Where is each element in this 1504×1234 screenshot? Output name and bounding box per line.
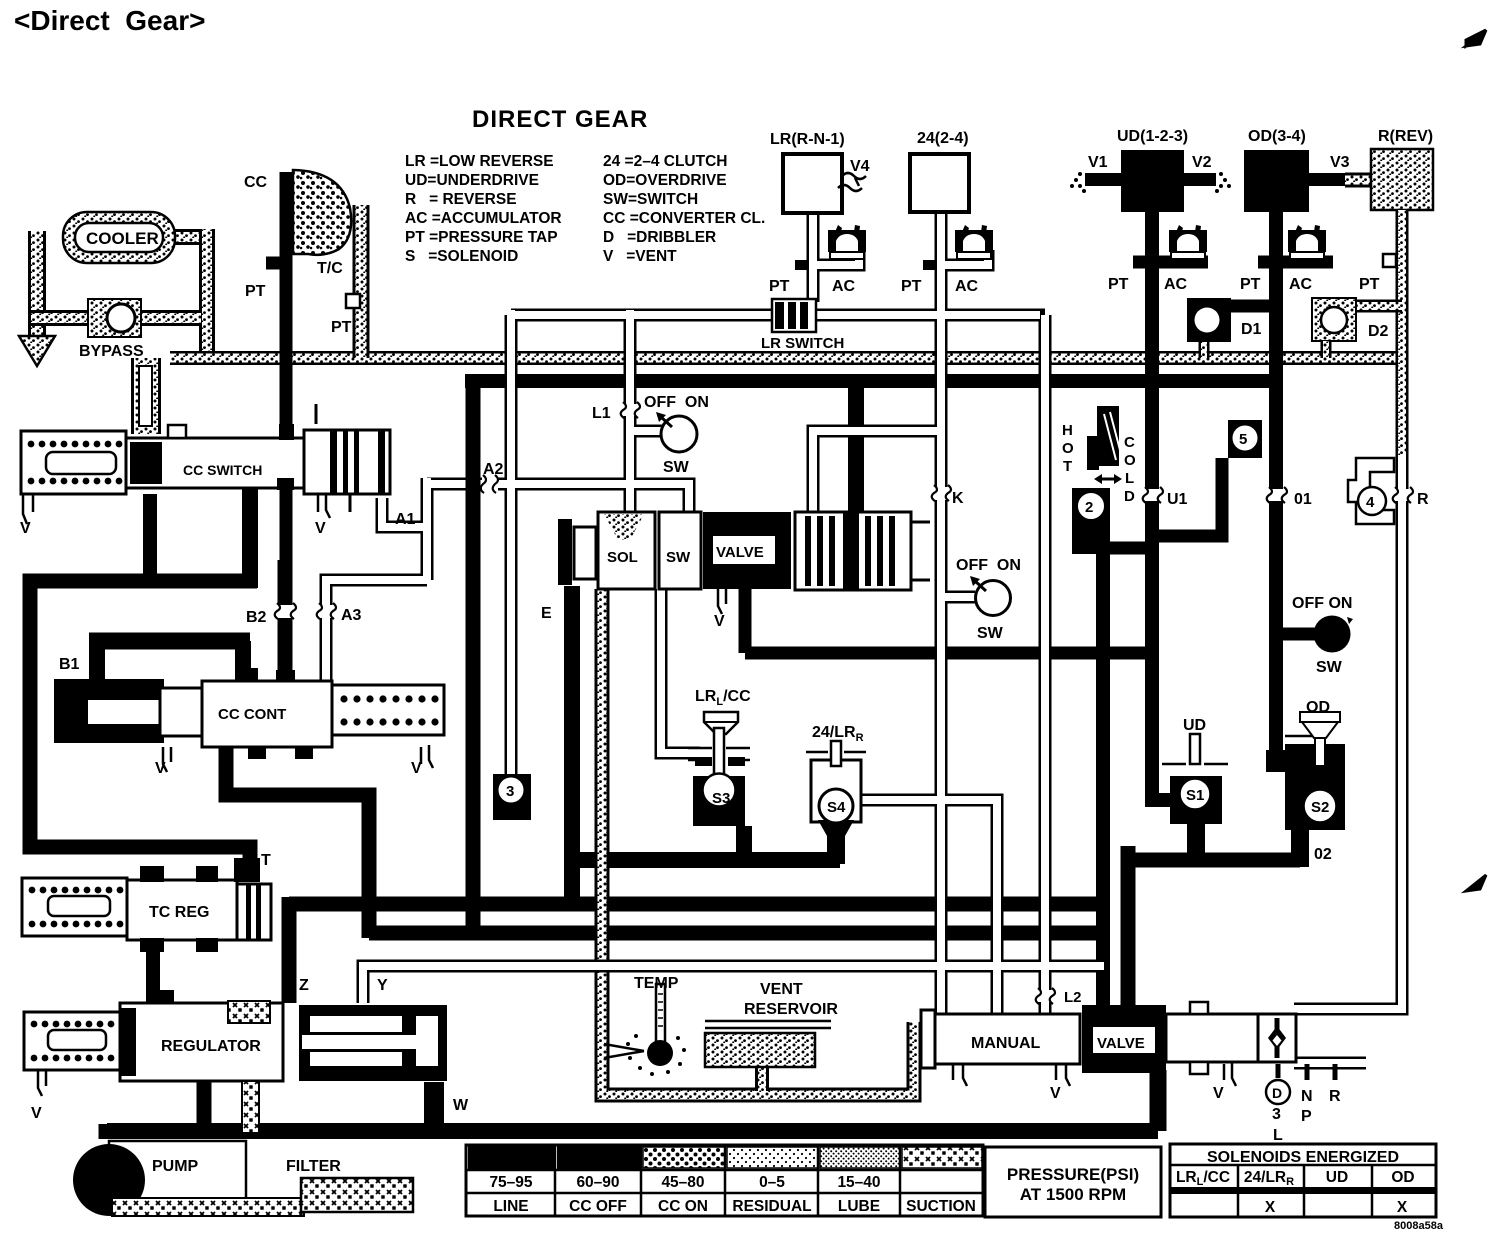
pressure tap PT tee on OD line: [1258, 256, 1333, 269]
wire D1 link to OD line: [1230, 300, 1276, 313]
svg-text:2: 2: [1085, 499, 1093, 516]
svg-text:OFF ON: OFF ON: [644, 394, 709, 411]
svg-text:D: D: [1272, 1085, 1282, 1101]
svg-text:T: T: [1063, 458, 1072, 475]
wire valve block bottom elbow: [1150, 1070, 1167, 1131]
svg-text:PT: PT: [331, 319, 352, 336]
svg-text:AC =ACCUMULATOR: AC =ACCUMULATOR: [405, 210, 562, 227]
node U1 break: [1143, 487, 1163, 503]
svg-text:02: 02: [1314, 846, 1332, 863]
svg-text:N: N: [1301, 1088, 1313, 1105]
svg-text:OFF ON: OFF ON: [956, 557, 1021, 574]
wire OD clutch line: [1269, 212, 1283, 762]
svg-text:LR(R-N-1): LR(R-N-1): [770, 131, 845, 148]
solenoid S4: [806, 741, 866, 836]
svg-text:S3: S3: [712, 790, 730, 807]
svg-text:UD=UNDERDRIVE: UD=UNDERDRIVE: [405, 172, 539, 189]
right valve body with check: [1166, 1002, 1335, 1104]
svg-text:AC: AC: [1289, 276, 1313, 293]
accumulator AC (UD): [1169, 225, 1207, 259]
wire left drain loop: [30, 581, 257, 880]
svg-text:75–95: 75–95: [489, 1174, 532, 1191]
svg-text:A3: A3: [341, 607, 362, 624]
pressure tap PT on CC line: [266, 257, 280, 270]
svg-text:SOL: SOL: [607, 549, 638, 566]
wire regulator drain stub: [197, 1080, 212, 1124]
svg-text:LINE: LINE: [493, 1198, 528, 1215]
wire B1 stub down: [89, 641, 105, 683]
wire Y channel: [363, 966, 1104, 1003]
clutch box OD(3-4) black: [1244, 150, 1309, 212]
wire OD switch link: [1283, 628, 1318, 641]
clutch box UD(1-2-3) black: [1121, 150, 1184, 212]
switch LR SWITCH: [772, 299, 816, 332]
node K break: [932, 485, 951, 501]
node B2 break: [275, 603, 296, 619]
center valve assembly SOL/SW/VALVE: [558, 512, 930, 614]
svg-text:OD: OD: [1306, 699, 1330, 716]
svg-text:PUMP: PUMP: [152, 1158, 199, 1175]
svg-text:V4: V4: [850, 158, 870, 175]
svg-text:DIRECT GEAR: DIRECT GEAR: [472, 106, 648, 133]
box PRESSURE(PSI) AT 1500 RPM: [985, 1147, 1161, 1217]
svg-text:X: X: [1397, 1199, 1408, 1216]
wire R channel lower part: [1360, 455, 1402, 1009]
solenoid S3: [688, 712, 750, 826]
svg-text:LR SWITCH: LR SWITCH: [761, 335, 844, 352]
wire S1 drain: [1187, 822, 1205, 860]
svg-text:CC: CC: [244, 174, 268, 191]
vent stubs CC SWITCH: [23, 494, 330, 524]
switch SW1 (L1): [661, 416, 697, 452]
svg-text:S2: S2: [1311, 799, 1329, 816]
svg-text:R = REVERSE: R = REVERSE: [405, 191, 517, 208]
svg-text:OD=OVERDRIVE: OD=OVERDRIVE: [603, 172, 727, 189]
wire Z feed: [282, 897, 297, 1003]
wire 24 clutch K channel: [935, 212, 948, 1022]
wire long CC-ON line across page: [170, 351, 1402, 365]
dribbler D2 circle: [1321, 307, 1347, 333]
svg-text:B2: B2: [246, 609, 267, 626]
wire S1 link elbow: [1152, 793, 1170, 800]
svg-text:R: R: [1329, 1088, 1341, 1105]
wire reservoir drain stipple: [755, 1067, 769, 1091]
wire left frame vertical repaint over A2 crossing: [466, 460, 481, 510]
svg-text:S4: S4: [827, 799, 846, 816]
node L2 break: [1036, 988, 1055, 1004]
svg-text:L1: L1: [592, 405, 611, 422]
wire A3 channel: [326, 580, 427, 680]
accumulator AC (LR): [828, 225, 866, 259]
corner flag right middle: [1466, 875, 1486, 891]
pump PUMP: [109, 1141, 246, 1201]
wire T/C right channel: [353, 205, 370, 358]
svg-text:PT: PT: [1108, 276, 1129, 293]
valve block VALVE (black): [1082, 1005, 1166, 1073]
dribbler D2 drip to long line: [1321, 341, 1332, 358]
svg-text:SOLENOIDS ENERGIZED: SOLENOIDS ENERGIZED: [1207, 1149, 1399, 1166]
wire B1 right stub down: [235, 641, 251, 683]
svg-text:SW=SWITCH: SW=SWITCH: [603, 191, 698, 208]
svg-text:A2: A2: [483, 461, 504, 478]
wire bus1 y904: [289, 897, 1104, 912]
valve CC SWITCH spring box: [21, 431, 126, 494]
legend column 2: [603, 153, 765, 265]
wire CC switch feed channel: [131, 358, 161, 434]
svg-text:T: T: [261, 852, 271, 869]
thermal valve HOT/COLD: [1072, 406, 1122, 554]
pressure tap PT stub (LR): [795, 260, 807, 270]
clutch box 24(2-4): [910, 154, 969, 212]
wire LR accumulator link: [813, 250, 859, 265]
torque converter T/C stippled half disc: [293, 170, 351, 255]
wire B1 bar: [89, 633, 250, 650]
pressure tap PT stub (24): [923, 260, 935, 270]
svg-text:5: 5: [1239, 431, 1247, 448]
wire right-valve upper thin line: [1294, 1003, 1366, 1016]
wire valve to bus drop: [739, 586, 752, 653]
wire bypass row: [31, 310, 201, 326]
svg-text:24 =2–4 CLUTCH: 24 =2–4 CLUTCH: [603, 153, 727, 170]
svg-text:R(REV): R(REV): [1378, 128, 1433, 145]
svg-text:4: 4: [1366, 494, 1375, 511]
wire CC switch drain 2: [242, 486, 258, 588]
svg-text:O: O: [1124, 452, 1136, 469]
svg-text:PT: PT: [769, 278, 790, 295]
wire 24 accumulator link: [941, 250, 988, 265]
svg-text:W: W: [453, 1097, 469, 1114]
wire A junction vertical: [421, 478, 434, 580]
legend column 1: [405, 153, 562, 265]
svg-text:V: V: [1050, 1085, 1061, 1102]
vent V3 stippled stub: [1345, 173, 1375, 188]
corner flag top right: [1466, 30, 1486, 46]
svg-text:UD: UD: [1326, 1169, 1348, 1186]
svg-text:FILTER: FILTER: [286, 1158, 341, 1175]
svg-text:D: D: [1124, 488, 1135, 505]
valve CC SWITCH body: [126, 438, 304, 488]
svg-text:OD(3-4): OD(3-4): [1248, 128, 1306, 145]
valve CC CONT: [54, 668, 444, 772]
wire left frame vertical x470: [466, 381, 481, 934]
dribbler D1: [1187, 298, 1231, 342]
svg-text:BYPASS: BYPASS: [79, 343, 144, 360]
svg-text:V2: V2: [1192, 154, 1212, 171]
wire valve drain stipple channel to reservoir: [602, 589, 914, 1095]
accumulator AC (24): [955, 225, 993, 259]
valve TC REG: [22, 858, 271, 952]
svg-text:<Direct Gear>: <Direct Gear>: [14, 5, 205, 36]
svg-text:V: V: [315, 520, 326, 537]
svg-text:E: E: [541, 605, 552, 622]
wire A2 horizontal channel: [427, 484, 689, 512]
wire thermal valve 2 to UD link: [1105, 542, 1148, 555]
svg-text:8008a58a: 8008a58a: [1394, 1220, 1444, 1232]
svg-text:SW: SW: [663, 459, 690, 476]
svg-text:VENT: VENT: [760, 981, 803, 998]
wire orifice 5 link: [1159, 458, 1222, 536]
svg-text:VALVE: VALVE: [1097, 1035, 1145, 1052]
wire cooler top link: [175, 229, 213, 245]
svg-text:01: 01: [1294, 491, 1312, 508]
svg-text:24(2-4): 24(2-4): [917, 130, 969, 147]
svg-text:A1: A1: [395, 511, 416, 528]
svg-text:B1: B1: [59, 656, 80, 673]
svg-text:V: V: [411, 760, 422, 777]
dribbler D2 stippled link to R channel: [1355, 300, 1402, 313]
svg-text:VALVE: VALVE: [716, 544, 764, 561]
suction channel: [112, 1198, 304, 1216]
svg-text:V: V: [714, 613, 725, 630]
wire cooler left vertical channel: [28, 231, 46, 344]
valve CC SWITCH ribbed right section: [304, 404, 390, 512]
svg-text:D2: D2: [1368, 323, 1389, 340]
wire CC converter feed vertical: [280, 172, 293, 560]
wire under-valve bus y653: [745, 647, 1153, 660]
wire CC CONT drain: [226, 748, 369, 938]
wire bottom main bus: [107, 1123, 1158, 1139]
svg-text:CC CONT: CC CONT: [218, 706, 286, 723]
node L1 break: [621, 402, 640, 418]
vent spray V1: [1070, 172, 1086, 193]
svg-text:H: H: [1062, 422, 1073, 439]
svg-text:K: K: [952, 490, 964, 507]
cooler COOLER: [63, 212, 175, 263]
wire L1 to switch elbow: [630, 425, 662, 438]
svg-text:UD(1-2-3): UD(1-2-3): [1117, 128, 1188, 145]
wire UD clutch line: [1145, 212, 1159, 800]
switch SW3 (OD) filled: [1314, 616, 1351, 653]
wire L2 channel: [1039, 315, 1052, 1022]
ground arrow below cooler line: [19, 336, 55, 366]
svg-text:3: 3: [1272, 1106, 1281, 1123]
svg-text:15–40: 15–40: [837, 1174, 880, 1191]
svg-text:V =VENT: V =VENT: [603, 248, 677, 265]
wire E line vertical: [505, 315, 518, 778]
svg-text:U1: U1: [1167, 491, 1188, 508]
wire K branch to valve: [813, 431, 941, 512]
svg-text:45–80: 45–80: [661, 1174, 704, 1191]
svg-text:REGULATOR: REGULATOR: [161, 1038, 261, 1055]
wire right-valve lower thin line: [1294, 1057, 1366, 1070]
node 01 break: [1267, 487, 1287, 503]
dribbler D2 stippled box: [1312, 298, 1356, 341]
svg-text:CC SWITCH: CC SWITCH: [183, 462, 262, 478]
svg-text:AC: AC: [832, 278, 856, 295]
wire LR clutch channel: [807, 213, 820, 302]
orifice 4 bracket: [1348, 458, 1394, 524]
wire bus2 y933: [369, 926, 1110, 941]
svg-text:O: O: [1062, 440, 1074, 457]
svg-text:AT 1500 RPM: AT 1500 RPM: [1020, 1185, 1126, 1204]
svg-text:V3: V3: [1330, 154, 1350, 171]
svg-text:RESIDUAL: RESIDUAL: [732, 1198, 811, 1215]
wire main top bus: [465, 374, 1283, 388]
svg-text:60–90: 60–90: [576, 1174, 619, 1191]
svg-text:D1: D1: [1241, 321, 1262, 338]
accumulator AC (OD): [1288, 225, 1326, 259]
wire valve black-section feed: [848, 388, 864, 514]
R(REV) stippled box: [1371, 149, 1433, 210]
table SOLENOIDS ENERGIZED: [1170, 1144, 1436, 1217]
wire S3 feed channel: [661, 589, 700, 753]
svg-text:TC REG: TC REG: [149, 904, 209, 921]
svg-text:D =DRIBBLER: D =DRIBBLER: [603, 229, 716, 246]
wire CC switch drain 1: [143, 494, 157, 582]
svg-text:C: C: [1124, 434, 1135, 451]
solenoid S2: [1285, 712, 1345, 830]
svg-text:LR =LOW REVERSE: LR =LOW REVERSE: [405, 153, 554, 170]
svg-text:P: P: [1301, 1108, 1312, 1125]
svg-text:PT: PT: [245, 283, 266, 300]
wire OD to S2 solenoid elbow: [1276, 750, 1330, 762]
svg-text:L2: L2: [1064, 989, 1082, 1006]
svg-text:0–5: 0–5: [759, 1174, 785, 1191]
switch SW2 (K): [976, 581, 1011, 616]
wire bus0 right y860: [1128, 846, 1300, 860]
valve REGULATOR: [24, 990, 447, 1133]
node A2 break: [481, 475, 498, 493]
pressure tap PT tee on UD line: [1133, 256, 1208, 269]
svg-text:R: R: [1417, 491, 1429, 508]
svg-text:V: V: [1213, 1085, 1224, 1102]
svg-text:T/C: T/C: [317, 260, 343, 277]
svg-text:TEMP: TEMP: [634, 975, 679, 992]
svg-text:PT: PT: [1240, 276, 1261, 293]
solenoid S1: [1162, 734, 1228, 824]
vent V4 squiggle: [838, 173, 866, 191]
svg-text:OD: OD: [1391, 1169, 1414, 1186]
pressure tap PT notch on T/C channel: [346, 294, 360, 308]
wire center-left drop from valve cap: [564, 586, 580, 904]
valve MANUAL: [921, 1010, 1080, 1086]
svg-text:X: X: [1265, 1199, 1276, 1216]
svg-text:V1: V1: [1088, 154, 1108, 171]
wire S4 drain: [827, 822, 845, 864]
svg-text:Z: Z: [299, 977, 309, 994]
wire LR switch horizontal channel: [511, 309, 1045, 322]
orifice 5: [1228, 420, 1262, 458]
wire under-valve bus S3 S4: [576, 852, 840, 868]
pressure tap PT notch on R channel: [1383, 254, 1396, 267]
wire A1 channel from valve: [382, 498, 427, 527]
wire B2 vertical to CC CONT: [278, 560, 293, 683]
wire bus0 elbow down to valve block: [1121, 853, 1136, 1010]
wire R reverse stippled channel upper part: [1396, 210, 1409, 460]
svg-text:S1: S1: [1186, 787, 1204, 804]
svg-text:MANUAL: MANUAL: [971, 1035, 1041, 1052]
svg-text:COOLER: COOLER: [86, 229, 159, 248]
reservoir VENT RESERVOIR: [705, 1021, 831, 1067]
svg-text:SW: SW: [666, 549, 691, 566]
filter FILTER: [301, 1178, 413, 1212]
svg-text:L: L: [1273, 1127, 1283, 1144]
svg-text:PT: PT: [901, 278, 922, 295]
svg-text:LUBE: LUBE: [838, 1198, 880, 1215]
wire S4 output channel: [853, 800, 997, 1022]
svg-text:AC: AC: [1164, 276, 1188, 293]
svg-text:V: V: [20, 520, 31, 537]
svg-text:PT =PRESSURE TAP: PT =PRESSURE TAP: [405, 229, 558, 246]
vent spray V2: [1215, 172, 1231, 193]
bypass valve: [88, 299, 141, 337]
wire W drain: [424, 1082, 444, 1124]
svg-text:SW: SW: [977, 625, 1004, 642]
wire valve-block feed vertical: [1096, 554, 1110, 1010]
svg-text:UD: UD: [1183, 717, 1206, 734]
wire K to switch stub: [941, 591, 975, 604]
svg-text:L: L: [1125, 470, 1134, 487]
svg-text:SW: SW: [1316, 659, 1343, 676]
svg-text:CC OFF: CC OFF: [569, 1198, 627, 1215]
table texts: [489, 1149, 1414, 1216]
HOT / COLD stacked: [1062, 422, 1136, 505]
svg-text:3: 3: [506, 783, 514, 800]
svg-text:RESERVOIR: RESERVOIR: [744, 1001, 838, 1018]
svg-text:PRESSURE(PSI): PRESSURE(PSI): [1007, 1165, 1139, 1184]
wire pump outlet elbow: [99, 1124, 116, 1139]
wire S2 drain: [1291, 830, 1309, 867]
orifice 3: [493, 774, 531, 820]
svg-text:AC: AC: [955, 278, 979, 295]
svg-text:CC ON: CC ON: [658, 1198, 708, 1215]
wire TC REG to regulator vertical: [146, 940, 160, 1006]
dribbler D1 drip to long line: [1199, 341, 1210, 358]
wire L1 line vertical: [624, 315, 637, 512]
svg-text:Y: Y: [377, 977, 388, 994]
node R break: [1393, 487, 1413, 503]
svg-text:S =SOLENOID: S =SOLENOID: [405, 248, 518, 265]
wire S3 drain: [736, 826, 752, 864]
svg-text:PT: PT: [1359, 276, 1380, 293]
svg-text:CC =CONVERTER CL.: CC =CONVERTER CL.: [603, 210, 765, 227]
thermometer TEMP: [604, 984, 686, 1076]
svg-text:V: V: [31, 1105, 42, 1122]
svg-text:OFF ON: OFF ON: [1292, 595, 1352, 612]
svg-text:V: V: [155, 760, 166, 777]
svg-text:LRL/CC: LRL/CC: [1176, 1169, 1230, 1188]
clutch box LR(R-N-1): [783, 154, 842, 213]
svg-text:SUCTION: SUCTION: [906, 1198, 976, 1215]
node A3 break: [317, 603, 336, 619]
wire cooler right vertical channel: [199, 229, 215, 358]
